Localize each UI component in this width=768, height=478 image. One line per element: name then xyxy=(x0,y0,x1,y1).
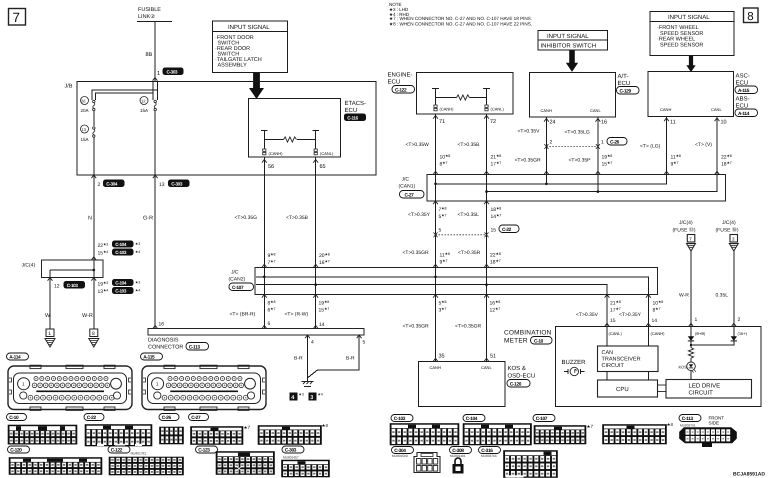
svg-text:C-10: C-10 xyxy=(534,338,544,344)
svg-text:CANL: CANL xyxy=(711,107,722,112)
svg-text:10: 10 xyxy=(721,120,727,126)
svg-text:7: 7 xyxy=(13,10,21,25)
svg-text:MU803766: MU803766 xyxy=(481,454,497,458)
svg-text:12: 12 xyxy=(54,284,60,290)
wire N from J/B pin 2 xyxy=(93,175,95,260)
svg-text:C-120: C-120 xyxy=(10,448,22,454)
CAN transceiver xyxy=(598,346,659,372)
svg-text:MU803791: MU803791 xyxy=(680,424,696,428)
svg-text:15A: 15A xyxy=(81,137,89,142)
svg-text:C-129: C-129 xyxy=(620,88,632,94)
junction dots on CAN1 bus xyxy=(434,183,437,186)
svg-text:CPU: CPU xyxy=(616,386,629,393)
svg-text:<T>0.35V: <T>0.35V xyxy=(576,312,599,318)
svg-text:BCJA8591AD: BCJA8591AD xyxy=(733,472,765,478)
svg-text:<T>0.35L: <T>0.35L xyxy=(458,212,480,218)
svg-text:A/T-: A/T- xyxy=(618,73,629,80)
svg-text:14: 14 xyxy=(319,322,325,328)
svg-text:(CANL): (CANL) xyxy=(609,331,623,336)
svg-text:CANH: CANH xyxy=(541,108,552,113)
svg-text:C-116: C-116 xyxy=(347,115,358,120)
svg-text:ECU: ECU xyxy=(736,80,749,87)
label C-22 xyxy=(84,414,104,421)
connector C-27 (18 pin) xyxy=(191,427,244,445)
connector C-107 (18 pin) xyxy=(534,426,586,445)
label C-113 xyxy=(679,415,701,422)
connector C-113 xyxy=(680,428,737,448)
A/T ECU xyxy=(530,73,616,118)
svg-text:ECU: ECU xyxy=(618,80,631,87)
connector A-114 xyxy=(8,365,132,410)
svg-text:C-22: C-22 xyxy=(502,227,512,233)
svg-text:C-303: C-303 xyxy=(167,69,179,74)
svg-text:ABS-: ABS- xyxy=(736,96,750,103)
svg-text:15: 15 xyxy=(491,228,497,234)
svg-text:<T>0.35B: <T>0.35B xyxy=(458,142,481,148)
svg-text:OSD-ECU: OSD-ECU xyxy=(508,373,536,380)
svg-text:CANH: CANH xyxy=(660,107,671,112)
wire W-R: J/C(4) fuse 13 to meter pin 1 xyxy=(690,251,692,327)
svg-text:<T> (BR-R): <T> (BR-R) xyxy=(230,312,256,318)
svg-text:<T> (LG): <T> (LG) xyxy=(640,144,661,150)
svg-text:★8: ★8 xyxy=(667,422,674,427)
fuse 13 15A (left lower) xyxy=(81,125,89,133)
fuse 12 15A (right) xyxy=(140,97,148,105)
wire (BR-R): CAN2 to diagnosis connector pin 6 xyxy=(263,295,265,329)
svg-text:C-104: C-104 xyxy=(115,242,127,247)
svg-text:★3: ★3 xyxy=(135,242,140,246)
svg-text:<T> (V): <T> (V) xyxy=(695,142,712,148)
svg-text:4: 4 xyxy=(311,340,314,346)
page number 8 xyxy=(744,8,759,23)
wire 0.35G: ETACS pin 56 (CANH) down to J/C CAN2 xyxy=(263,157,265,268)
svg-text:★8 : WHEN CONNECTOR NO. C-27 A: ★8 : WHEN CONNECTOR NO. C-27 AND NO. C-1… xyxy=(389,22,532,27)
svg-text:A-115: A-115 xyxy=(143,355,155,361)
wire 0.35LG: A/T-ECU pin 16 (CANL) to J/C CAN1 xyxy=(597,117,599,175)
wire 0.35GR: CAN2 to KOS pin 35 (CANH) xyxy=(435,295,437,362)
connector C-303 xyxy=(282,460,330,477)
svg-text:56: 56 xyxy=(268,164,274,170)
label C-122 xyxy=(108,446,130,453)
svg-text:CIRCUIT: CIRCUIT xyxy=(689,390,714,397)
svg-text:<T>0.35Y: <T>0.35Y xyxy=(408,212,431,218)
svg-text:C-26: C-26 xyxy=(162,415,172,421)
label C-107 xyxy=(533,415,555,422)
svg-text:INHIBITOR SWITCH: INHIBITOR SWITCH xyxy=(541,43,597,50)
svg-text:1: 1 xyxy=(157,71,160,77)
connector C-123 xyxy=(216,452,275,475)
svg-text:5: 5 xyxy=(439,228,442,234)
svg-text:1: 1 xyxy=(48,331,51,337)
svg-text:CIRCUIT: CIRCUIT xyxy=(602,363,625,369)
svg-text:INPUT SIGNAL: INPUT SIGNAL xyxy=(547,33,589,40)
wire 0.35V: CAN2 to meter pin 15 (CANL) xyxy=(606,295,608,327)
svg-text:C-26: C-26 xyxy=(610,139,620,145)
input signal box 3 (wheel sensors) xyxy=(650,12,734,56)
junction dots on CAN2 bus xyxy=(263,276,266,279)
LED drive circuit xyxy=(666,380,752,399)
svg-text:★4: ★4 xyxy=(135,250,140,254)
svg-text:ETACS-: ETACS- xyxy=(345,100,367,107)
wire fusible link to J/B xyxy=(154,22,156,82)
svg-text:MU801457: MU801457 xyxy=(283,456,299,460)
svg-text:(16+): (16+) xyxy=(738,331,748,336)
svg-text:<T>0.35LG: <T>0.35LG xyxy=(565,130,590,136)
svg-text:J/C(4): J/C(4) xyxy=(722,220,736,226)
svg-text:6: 6 xyxy=(268,321,271,327)
wire 0.35L/0.35R: CAN1 pin 18/14 down through C-22 to CAN2 xyxy=(486,201,488,268)
svg-text:KOS &: KOS & xyxy=(508,365,526,372)
svg-text:<T> (R-W): <T> (R-W) xyxy=(285,312,309,318)
svg-text:<T>0.35P: <T>0.35P xyxy=(569,158,592,164)
svg-text:2: 2 xyxy=(550,140,553,146)
svg-text:72: 72 xyxy=(490,119,496,125)
svg-text:ECU: ECU xyxy=(345,107,358,114)
svg-text:<T>0.35GR: <T>0.35GR xyxy=(403,324,430,330)
svg-text:G-R: G-R xyxy=(143,216,153,222)
svg-text:16: 16 xyxy=(159,322,165,328)
connector C-10 xyxy=(8,425,77,444)
wire 0.35L: J/C(4) fuse 18 to meter pin 2 xyxy=(733,251,735,327)
svg-text:20A: 20A xyxy=(81,108,89,113)
svg-text:12: 12 xyxy=(141,98,146,103)
svg-text:71: 71 xyxy=(439,119,445,125)
svg-text:J/C(4): J/C(4) xyxy=(679,220,693,226)
svg-text:TRANSCEIVER: TRANSCEIVER xyxy=(602,357,641,363)
CPU xyxy=(598,380,658,397)
svg-text:ASSEMBLY: ASSEMBLY xyxy=(218,63,248,69)
svg-text:★8: ★8 xyxy=(322,423,329,428)
svg-text:C-122: C-122 xyxy=(111,448,123,454)
svg-text:(B+B): (B+B) xyxy=(695,331,706,336)
svg-text:35: 35 xyxy=(439,354,445,360)
svg-text:A-114: A-114 xyxy=(9,355,21,361)
svg-text:★4: ★4 xyxy=(135,289,140,293)
svg-text:ENGINE-: ENGINE- xyxy=(388,72,413,79)
svg-text:24: 24 xyxy=(550,120,556,126)
svg-text:13: 13 xyxy=(82,127,87,132)
svg-text:2: 2 xyxy=(738,317,741,323)
svg-text:C-22: C-22 xyxy=(87,415,97,421)
svg-text:C-10: C-10 xyxy=(9,415,19,421)
svg-text:C-103: C-103 xyxy=(115,250,127,255)
svg-text:COMBINATION: COMBINATION xyxy=(504,330,552,337)
svg-text:<T>0.35V: <T>0.35V xyxy=(518,129,541,135)
connector C-304 xyxy=(414,453,440,473)
svg-text:DIAGNOSIS: DIAGNOSIS xyxy=(148,338,179,344)
wire (V): ASC-ECU pin 10 (CANL) to J/C CAN1 xyxy=(716,117,718,175)
svg-text:51: 51 xyxy=(490,354,496,360)
svg-text:C-107: C-107 xyxy=(232,285,244,291)
svg-text:W-R: W-R xyxy=(82,313,93,319)
svg-text:16: 16 xyxy=(601,120,607,126)
svg-text:B-R: B-R xyxy=(346,356,355,362)
svg-text:1: 1 xyxy=(601,140,604,146)
svg-text:CANL: CANL xyxy=(590,108,601,113)
connector C-308 xyxy=(453,458,464,473)
svg-text:<T>0.35G: <T>0.35G xyxy=(235,215,258,221)
label C-308 xyxy=(450,447,472,454)
svg-text:13: 13 xyxy=(159,182,165,188)
svg-text:KOS: KOS xyxy=(679,365,688,370)
svg-text:2: 2 xyxy=(98,182,101,188)
connector C-103 xyxy=(390,424,459,446)
wire 0.35V: A/T-ECU pin 24 (CANH) to J/C CAN1 xyxy=(545,117,547,175)
svg-text:W-R: W-R xyxy=(679,293,689,299)
svg-text:<T>0.35GR: <T>0.35GR xyxy=(455,324,482,330)
wire 0.35GR: CAN2 to KOS pin 51 (CANL) xyxy=(486,295,488,362)
svg-text:65: 65 xyxy=(320,164,326,170)
svg-text:METER: METER xyxy=(504,338,528,345)
svg-text:CONNECTOR: CONNECTOR xyxy=(148,345,183,351)
svg-text:15: 15 xyxy=(610,318,616,324)
connector C-26 xyxy=(160,427,184,444)
ETACS internal CAN resistor xyxy=(261,131,319,140)
svg-text:<T>0.35GR: <T>0.35GR xyxy=(403,250,430,256)
ASC/ABS ECU xyxy=(648,72,734,117)
ETACS ECU box xyxy=(249,99,341,158)
svg-text:(CAN1): (CAN1) xyxy=(399,184,416,190)
svg-text:A-115: A-115 xyxy=(738,88,750,94)
svg-text:(CANH): (CANH) xyxy=(269,151,284,156)
wire 0.35B: ENGINE-ECU pin 72 (CANL) to J/C CAN1 xyxy=(486,114,488,175)
svg-text:C-113: C-113 xyxy=(189,344,201,350)
ground symbol (bar style) xyxy=(307,379,309,382)
connector C-107 (22 pin) xyxy=(603,425,667,445)
svg-text:ECU: ECU xyxy=(736,103,749,110)
arrow 2 xyxy=(566,51,578,72)
svg-text:FUSIBLE: FUSIBLE xyxy=(138,7,161,13)
svg-text:SPEED SENSOR: SPEED SENSOR xyxy=(660,42,703,48)
wire 0.35B: ETACS pin 65 (CANL) down to J/C CAN2 xyxy=(315,157,317,268)
page number 7 xyxy=(9,9,26,26)
svg-text:★3: ★3 xyxy=(135,281,140,285)
wire 0.35W: ENGINE-ECU pin 71 (CANH) to J/C CAN1 xyxy=(435,114,437,175)
svg-text:(CANL): (CANL) xyxy=(491,107,505,112)
wire (R-W): CAN2 to diagnosis connector pin 14 xyxy=(315,295,317,329)
connector C-122 xyxy=(109,457,184,475)
svg-text:15A: 15A xyxy=(140,108,148,113)
label C-120 xyxy=(8,446,30,453)
svg-text:<T>0.35W: <T>0.35W xyxy=(406,142,430,148)
svg-text:C-304: C-304 xyxy=(106,181,118,186)
label C-316 xyxy=(479,447,501,454)
wire W: J/C(4) pin 12 to ground 1 xyxy=(49,278,51,330)
svg-text:1: 1 xyxy=(695,317,698,323)
fuse 26 20A (left top) xyxy=(81,97,89,105)
svg-text:14: 14 xyxy=(652,318,658,324)
svg-text:(CANH): (CANH) xyxy=(440,107,455,112)
svg-text:C-103: C-103 xyxy=(67,283,79,288)
svg-text:<T>0.35R: <T>0.35R xyxy=(458,250,481,256)
arrow 1 xyxy=(249,73,264,99)
label A-114 xyxy=(7,353,29,360)
svg-text:W: W xyxy=(45,313,51,319)
connector C-22 xyxy=(85,425,152,447)
svg-text:C-120: C-120 xyxy=(510,381,522,387)
svg-text:J/C(4): J/C(4) xyxy=(22,263,36,269)
svg-text:LINK②: LINK② xyxy=(138,13,155,20)
svg-text:J/B: J/B xyxy=(65,84,73,90)
input signal box 1 xyxy=(213,21,288,73)
svg-text:C-103: C-103 xyxy=(115,289,127,294)
svg-text:★7: ★7 xyxy=(587,424,594,429)
label C-103 xyxy=(391,415,413,422)
label C-123 xyxy=(196,446,218,453)
svg-text:(FUSE ⑬): (FUSE ⑬) xyxy=(673,227,696,234)
svg-text:C-27: C-27 xyxy=(405,192,415,198)
label C-10 xyxy=(7,414,27,421)
svg-text:★7: ★7 xyxy=(244,425,251,430)
svg-text:C-107: C-107 xyxy=(536,416,548,422)
wire B-R: diagnosis pin 4 to ground xyxy=(307,335,309,379)
connector A-115 xyxy=(142,365,266,410)
label C-303 xyxy=(282,446,304,453)
input signal box 2 (inhibitor) xyxy=(538,31,608,51)
svg-text:ECU: ECU xyxy=(388,79,401,86)
connector C-316 xyxy=(504,451,558,478)
label C-27 xyxy=(189,414,209,421)
svg-text:J/C: J/C xyxy=(231,270,239,276)
svg-text:0.35L: 0.35L xyxy=(716,293,729,299)
svg-text:(FUSE ⑱): (FUSE ⑱) xyxy=(716,227,739,234)
svg-text:C-122: C-122 xyxy=(395,87,407,93)
svg-text:C-27: C-27 xyxy=(191,415,201,421)
svg-text:8: 8 xyxy=(92,331,95,337)
svg-text:LED DRIVE: LED DRIVE xyxy=(689,383,721,390)
svg-text:B-R: B-R xyxy=(294,356,303,362)
svg-text:<T>0.35Y: <T>0.35Y xyxy=(619,312,642,318)
connector C-120 xyxy=(9,458,102,475)
wire B-R: diagnosis pin 5 to ground xyxy=(308,335,359,378)
connector C-104 xyxy=(463,424,532,446)
svg-text:3: 3 xyxy=(310,395,313,401)
svg-text:(CAN2): (CAN2) xyxy=(229,277,246,283)
label C-104 xyxy=(463,415,485,422)
wire (LG): ASC-ECU pin 11 (CANH) to J/C CAN1 xyxy=(666,117,668,175)
svg-text:8: 8 xyxy=(747,11,753,23)
CAN1 bus lines xyxy=(436,175,667,184)
svg-text:★7 : WHEN CONNECTOR NO. C-27 A: ★7 : WHEN CONNECTOR NO. C-27 AND NO. C-1… xyxy=(389,16,532,21)
svg-text:C-123: C-123 xyxy=(198,448,210,454)
svg-text:5: 5 xyxy=(363,340,366,346)
svg-text:INPUT SIGNAL: INPUT SIGNAL xyxy=(668,14,710,21)
svg-text:11: 11 xyxy=(670,120,676,126)
diodes and resistor / KOS LED xyxy=(690,327,692,337)
svg-text:MU801782: MU801782 xyxy=(131,452,147,456)
svg-text:N: N xyxy=(88,216,92,222)
svg-text:<T>0.35GR: <T>0.35GR xyxy=(515,158,542,164)
svg-text:(CANL): (CANL) xyxy=(320,151,334,156)
svg-text:INPUT SIGNAL: INPUT SIGNAL xyxy=(228,24,270,31)
wire 0.35Y/0.35GR: CAN1 pin 7/5 down through C-22 to CAN2 xyxy=(435,201,437,268)
svg-text:ASC-: ASC- xyxy=(736,73,750,80)
svg-text:BUZZER: BUZZER xyxy=(562,359,587,366)
svg-text:C-303: C-303 xyxy=(285,448,297,454)
svg-text:CANL: CANL xyxy=(481,365,492,370)
arrow 3 xyxy=(686,56,695,72)
svg-text:<T>0.35B: <T>0.35B xyxy=(286,215,309,221)
svg-text:C-104: C-104 xyxy=(115,281,127,286)
svg-text:(CANH): (CANH) xyxy=(651,331,666,336)
svg-text:C-103: C-103 xyxy=(394,416,406,422)
wire G-R from J/B pin 13 xyxy=(154,175,156,329)
svg-text:8B: 8B xyxy=(146,52,153,58)
label C-26 xyxy=(159,414,179,421)
svg-text:26: 26 xyxy=(81,98,86,103)
connector C-27 (22 pin) xyxy=(258,426,322,445)
svg-text:★3: ★3 xyxy=(299,393,304,397)
svg-text:C-113: C-113 xyxy=(682,416,694,422)
svg-text:SIDE: SIDE xyxy=(709,421,720,426)
thick bus outline inside J/B xyxy=(92,90,157,100)
svg-text:CANH: CANH xyxy=(430,365,441,370)
label C-304 xyxy=(392,447,414,454)
svg-text:A-114: A-114 xyxy=(738,111,750,117)
label A-115 xyxy=(141,353,163,360)
svg-text:C-104: C-104 xyxy=(466,416,478,422)
wire 0.35Y: CAN2 to meter pin 14 (CANH) xyxy=(647,295,649,327)
CAN2 bus lines xyxy=(256,277,648,295)
wire W-R: J/C(4) pin 19/13 to ground 8 xyxy=(93,278,95,330)
svg-text:C-303: C-303 xyxy=(171,181,183,186)
svg-text:CAN: CAN xyxy=(602,350,614,356)
svg-text:MU801503: MU801503 xyxy=(392,454,408,458)
svg-text:J/C: J/C xyxy=(402,177,410,183)
svg-text:★4: ★4 xyxy=(318,393,323,397)
